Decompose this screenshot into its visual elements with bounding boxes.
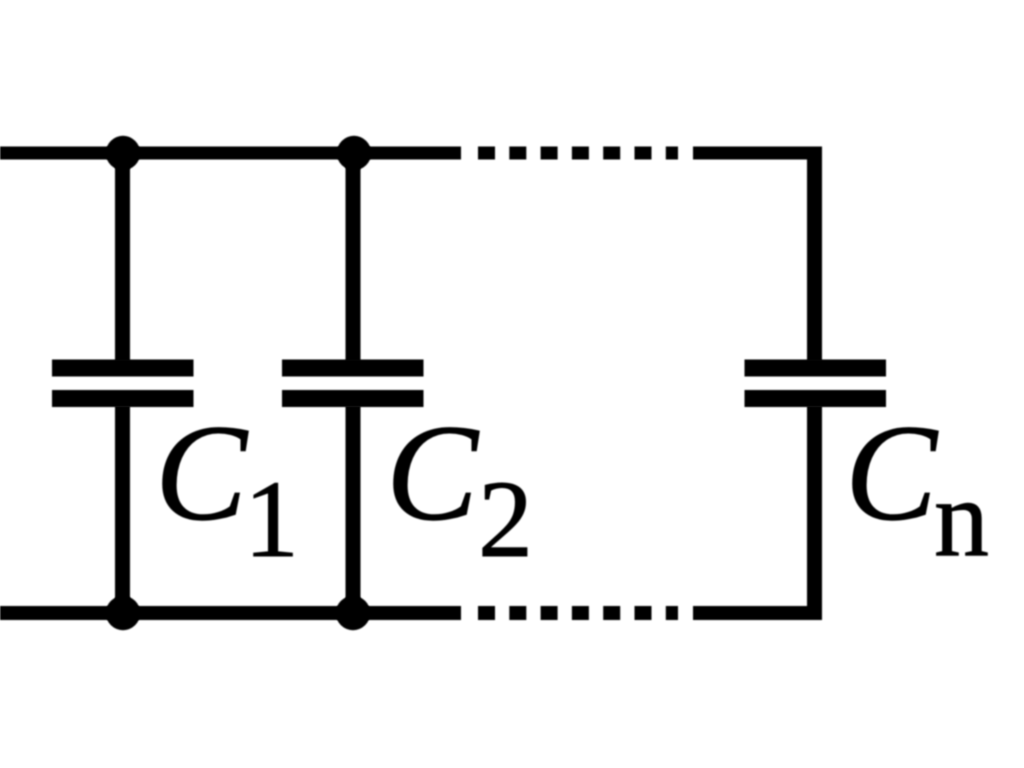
node junction dot top-left [106, 136, 140, 170]
capacitor C2 top plate [282, 360, 424, 377]
wire C2 branch bottom (C2 bottom plate to bottom bus) [346, 406, 361, 620]
svg-text:C: C [845, 396, 939, 549]
node junction dot bottom-middle [336, 596, 370, 630]
capacitor Cn top plate [745, 360, 887, 377]
wire C1 branch bottom (C1 bottom plate to bottom bus) [115, 406, 130, 620]
wire top bus left solid segment [0, 147, 461, 160]
svg-text:C: C [386, 396, 480, 549]
wire bottom bus dotted segment [478, 606, 678, 620]
wire right vertical (from Cn bottom plate to bottom bus) [807, 406, 822, 620]
wire C1 branch top (top bus to C1 top plate) [115, 153, 130, 361]
svg-text:1: 1 [244, 458, 299, 580]
wire right vertical (to Cn top plate) [807, 147, 822, 362]
wire top bus dotted segment [478, 147, 678, 160]
node junction dot top-middle [337, 136, 371, 170]
capacitor Cn bottom plate [745, 390, 887, 407]
svg-text:2: 2 [478, 458, 533, 580]
svg-text:C: C [155, 396, 249, 549]
capacitor C2 bottom plate [282, 390, 424, 407]
capacitor C1 top plate [52, 360, 194, 377]
svg-text:n: n [934, 457, 989, 579]
wire top bus right solid segment [693, 147, 822, 160]
capacitor C1 bottom plate [52, 390, 194, 407]
node junction dot bottom-left [106, 596, 140, 630]
wire C2 branch top (top bus to C2 top plate) [346, 153, 361, 361]
wire bottom bus right solid segment [693, 606, 822, 620]
wire bottom bus left solid segment [0, 606, 461, 620]
